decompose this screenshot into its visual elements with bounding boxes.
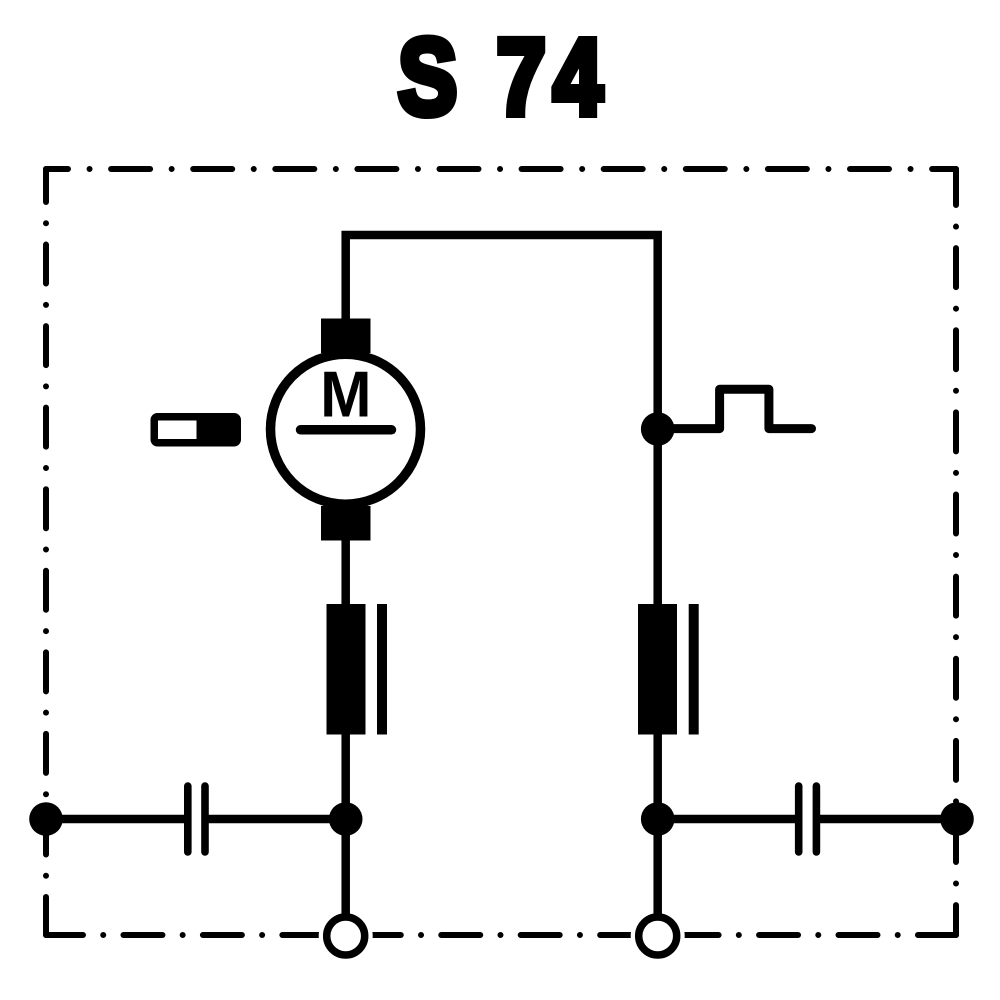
motor M1 circle (271, 354, 421, 504)
terminal 1 open circle (327, 917, 365, 955)
junction dot node A (left column) (329, 802, 363, 836)
choke coil L2 body (638, 604, 677, 735)
wire coil L1 to node (341, 733, 350, 820)
junction dot left border node (29, 802, 63, 836)
junction dot node B (right column) (641, 802, 675, 836)
motor brush terminal bottom (321, 506, 371, 541)
svg-text:S 74: S 74 (398, 17, 610, 137)
wire left border to capacitor C1 (46, 815, 188, 824)
white halo around terminal 2 (631, 909, 685, 963)
motor commutator bar (301, 425, 392, 435)
motor brush terminal top (321, 319, 371, 354)
title S 74 (398, 17, 610, 137)
enclosure dash-dot border bottom (46, 932, 956, 938)
wire node to terminal 2 (653, 819, 662, 920)
wire motor to coil L1 (341, 538, 350, 606)
capacitor C1 plate left (184, 786, 192, 852)
wire coil L2 to node (653, 733, 662, 820)
pulse waveform symbol (658, 389, 812, 428)
motor letter M (320, 359, 371, 431)
capacitor C2 plate right (813, 786, 821, 852)
wire node to terminal 1 (341, 819, 350, 920)
junction dot right border node (940, 802, 974, 836)
svg-text:M: M (320, 359, 371, 431)
node junction dot right column (641, 412, 675, 446)
wire capacitor C1 to node (205, 815, 346, 824)
enclosure dash-dot border left (43, 169, 49, 935)
choke coil L1 core line (377, 604, 387, 735)
terminal 2 open circle (639, 917, 677, 955)
capacitor C1 plate right (201, 786, 209, 852)
enclosure dash-dot border top (46, 166, 956, 172)
white halo around terminal 1 (319, 909, 373, 963)
choke coil L1 body (327, 604, 366, 735)
enclosure dash-dot border right (953, 169, 959, 935)
wire node to capacitor C2 (658, 815, 799, 824)
wiper-park indicator icon (151, 413, 242, 447)
capacitor C2 plate left (795, 786, 803, 852)
choke coil L2 core line (689, 604, 699, 735)
wire top bus: motor column up, across, down right column to coil (346, 235, 658, 605)
wire capacitor C2 to right border (816, 815, 957, 824)
